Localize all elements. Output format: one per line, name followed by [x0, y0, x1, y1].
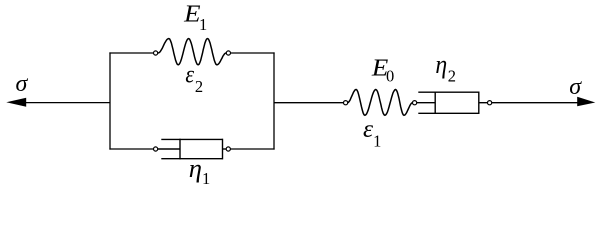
- node: spring E1 left terminal: [154, 51, 158, 55]
- wire: top rail left segment: [109, 52, 153, 54]
- wire: right branch vertical: [273, 52, 275, 149]
- wire: bottom rail right segment: [230, 148, 274, 150]
- wire: top rail right segment: [231, 52, 275, 54]
- spring E0: [348, 90, 413, 116]
- node: spring E0 / dashpot eta2 shared terminal: [413, 101, 417, 105]
- dashpot eta1: [158, 139, 227, 160]
- svg-text:2: 2: [195, 77, 203, 96]
- svg-text:1: 1: [202, 169, 210, 186]
- stress arrow right (sigma force): [492, 97, 596, 106]
- wire: left branch vertical: [109, 52, 111, 149]
- svg-text:2: 2: [448, 66, 456, 85]
- svg-text:1: 1: [373, 132, 381, 151]
- node: dashpot eta1 left terminal: [154, 147, 158, 151]
- svg-text:ε: ε: [185, 59, 195, 88]
- node: dashpot eta2 right terminal: [488, 101, 492, 105]
- node: spring E0 left terminal: [344, 101, 348, 105]
- svg-text:σ: σ: [16, 71, 29, 97]
- node: spring E1 right terminal: [226, 51, 230, 55]
- spring E1: [158, 39, 226, 65]
- svg-text:η: η: [435, 50, 447, 79]
- svg-text:1: 1: [199, 15, 207, 34]
- wire: middle series link: [274, 102, 344, 104]
- svg-text:σ: σ: [569, 74, 582, 100]
- svg-text:E: E: [183, 0, 201, 27]
- dashpot eta2: [417, 92, 488, 115]
- svg-text:0: 0: [386, 66, 394, 85]
- wire: bottom rail left segment: [109, 148, 153, 150]
- svg-text:η: η: [189, 154, 202, 183]
- stress arrow left (sigma force): [6, 98, 110, 107]
- node: dashpot eta1 right terminal: [226, 147, 230, 151]
